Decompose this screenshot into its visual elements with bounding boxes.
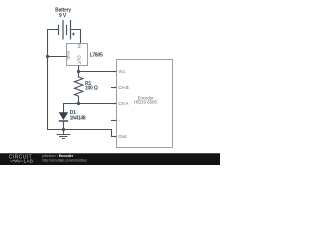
node junction on left rail <box>46 55 49 58</box>
svg-text:IN: IN <box>77 44 82 48</box>
encoder pin stub minus <box>111 120 117 122</box>
footer CircuitLab logo resistor squiggle <box>10 160 23 162</box>
svg-text:pdx4nsv / Encoder: pdx4nsv / Encoder <box>42 154 73 158</box>
encoder U2 HEDS 5500 body <box>117 60 173 148</box>
wire node B left and down to diode anode <box>64 104 79 113</box>
node A junction <box>77 70 80 73</box>
encoder pin stub CH B <box>111 87 117 89</box>
footer banner <box>0 153 220 165</box>
encoder pin stub Gnd <box>111 136 117 138</box>
svg-text:100 Ω: 100 Ω <box>85 86 98 92</box>
wire battery positive to regulator IN pin <box>71 30 80 44</box>
schematic background <box>0 0 220 165</box>
svg-text:HEDS 5500: HEDS 5500 <box>134 100 157 105</box>
ground <box>57 130 71 139</box>
svg-text:1N4148: 1N4148 <box>70 116 86 122</box>
node B junction <box>77 102 80 105</box>
svg-text:Gnd: Gnd <box>118 134 127 139</box>
battery plus sign <box>72 33 75 36</box>
svg-text:CH A: CH A <box>118 101 128 106</box>
svg-text:OUT: OUT <box>77 55 82 64</box>
wire node B to encoder CH A pin <box>79 103 117 105</box>
wire regulator OUT pin down to node A <box>78 66 80 72</box>
resistor R1 <box>74 72 82 104</box>
wire battery negative to left rail down to ground rail to encoder Gnd pin <box>48 30 117 137</box>
svg-text:CH B: CH B <box>118 85 128 90</box>
svg-text:9 V: 9 V <box>59 13 67 19</box>
svg-text:http://circuitlab.com/c/nbsbtv: http://circuitlab.com/c/nbsbtvs <box>42 159 87 163</box>
battery B1 <box>59 20 71 40</box>
wire node A to encoder Vcc pin <box>79 71 117 73</box>
battery B1 label <box>55 7 71 18</box>
svg-text:Vcc: Vcc <box>118 69 126 74</box>
encoder pin stub Vcc <box>111 71 117 73</box>
encoder pin stub CH A <box>111 103 117 105</box>
svg-text:L7805: L7805 <box>90 53 103 59</box>
voltage regulator U1 L7805 body <box>67 44 88 66</box>
svg-text:GND: GND <box>66 51 71 60</box>
node junction at ground rail <box>62 128 65 131</box>
svg-text:LAB: LAB <box>24 158 34 163</box>
wire regulator GND pin to left rail <box>48 56 67 58</box>
diode D1 <box>59 112 68 129</box>
